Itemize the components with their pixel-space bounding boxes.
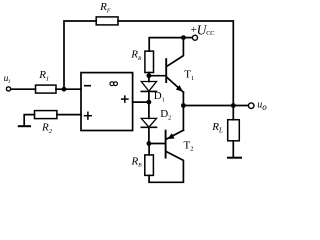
svg-text:T2: T2 <box>184 139 194 152</box>
svg-text:R1: R1 <box>38 69 49 83</box>
svg-text:D1: D1 <box>154 90 165 104</box>
svg-text:T1: T1 <box>184 69 194 82</box>
svg-text:CC: CC <box>206 30 214 37</box>
svg-text:RB: RB <box>130 49 142 62</box>
svg-text:RF: RF <box>99 1 111 15</box>
svg-text:D2: D2 <box>160 108 171 122</box>
svg-text:uo: uo <box>257 100 267 113</box>
svg-text:R2: R2 <box>41 122 53 136</box>
svg-text:RB: RB <box>131 155 143 168</box>
svg-text:RL: RL <box>211 121 223 135</box>
svg-text:ui: ui <box>4 74 11 85</box>
